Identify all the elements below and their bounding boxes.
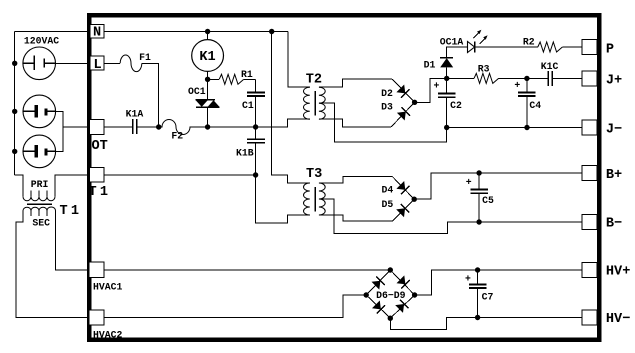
- transformer T1 core: [27, 203, 52, 205]
- svg-text:R1: R1: [241, 69, 253, 80]
- wire HVAC2 to bridge left: [104, 295, 366, 318]
- svg-text:+: +: [434, 81, 440, 92]
- svg-text:B−: B−: [606, 216, 622, 231]
- svg-text:C4: C4: [529, 100, 541, 111]
- svg-text:OC1: OC1: [188, 86, 206, 97]
- outlet receptacle symbol bottom: [23, 135, 56, 168]
- opto-triac OC1: [196, 79, 220, 127]
- svg-text:+: +: [466, 177, 472, 188]
- terminal OT box: [90, 120, 105, 135]
- enclosure outline of power supply box: [89, 15, 599, 340]
- node C4 bottom / J- line: [524, 125, 529, 130]
- LED OC1A: [447, 30, 538, 58]
- relay contact K1C: [527, 71, 582, 86]
- capacitor C1: [247, 92, 265, 96]
- svg-text:C1: C1: [242, 100, 254, 111]
- svg-text:OC1A: OC1A: [440, 37, 464, 48]
- transformer T3 primary winding: [303, 183, 309, 215]
- transformer T3 secondary winding: [319, 183, 325, 215]
- node junction bus / plug top: [12, 61, 17, 66]
- terminal N box: [90, 25, 104, 39]
- svg-text:P: P: [606, 43, 614, 58]
- node OC1 bottom / F2 line: [205, 124, 210, 129]
- terminal B+ box: [582, 166, 597, 181]
- wire T2 secondary center tap return: [319, 103, 447, 142]
- terminal HV+ box: [582, 263, 597, 278]
- svg-text:+: +: [514, 80, 520, 91]
- resistor R3: [447, 73, 527, 83]
- resistor R1: [208, 74, 256, 84]
- svg-text:K1C: K1C: [541, 61, 559, 72]
- svg-text:OT: OT: [92, 139, 108, 154]
- diode D4: [392, 177, 414, 200]
- node N line / K1 coil: [205, 29, 210, 34]
- node C2 bottom / J- line / T2 return: [444, 125, 449, 130]
- wire B- line to terminal: [479, 221, 582, 223]
- transformer T2 primary winding: [303, 87, 309, 119]
- svg-text:T1: T1: [60, 204, 83, 219]
- svg-text:120VAC: 120VAC: [24, 35, 59, 46]
- wire T1 terminal line: [104, 174, 256, 176]
- svg-text:R3: R3: [478, 63, 490, 74]
- wire B+ line to terminal: [479, 172, 582, 174]
- node T1 line / K1B: [253, 172, 258, 177]
- transformer T1 primary winding: [23, 191, 55, 201]
- terminal HV- box: [582, 310, 597, 325]
- wire K1 bottom to node: [207, 71, 209, 79]
- svg-text:HVAC1: HVAC1: [93, 282, 123, 293]
- wire D4 D5 junction to B+ line: [414, 173, 479, 199]
- transformer T3 core: [314, 187, 316, 212]
- terminal HVAC1 box: [89, 262, 104, 278]
- capacitor C2: [438, 78, 455, 127]
- svg-text:D6−D9: D6−D9: [376, 290, 406, 301]
- diode D3: [391, 102, 414, 127]
- wire neutral bus top from bus to N terminal: [15, 31, 87, 33]
- svg-text:D5: D5: [382, 199, 394, 210]
- diode D1: [440, 58, 453, 79]
- transformer T1 secondary winding: [23, 207, 56, 216]
- diode D2: [392, 79, 414, 102]
- svg-text:D2: D2: [381, 88, 393, 99]
- svg-text:R2: R2: [523, 37, 535, 48]
- svg-text:PRI: PRI: [31, 179, 49, 190]
- wire F2 line to C1 node: [208, 126, 256, 128]
- terminal B- box: [582, 215, 597, 230]
- wire C1 bottom to F2 line: [255, 96, 257, 127]
- svg-text:F2: F2: [171, 130, 183, 141]
- terminal J- box: [582, 120, 597, 135]
- wire N line corner to T2 primary top: [288, 32, 310, 88]
- fuse F2: [159, 120, 208, 135]
- terminal L box: [90, 56, 104, 70]
- svg-text:HV−: HV−: [606, 312, 630, 327]
- svg-text:HVAC2: HVAC2: [93, 329, 123, 340]
- fuse F1: [120, 55, 142, 72]
- wire J- line: [447, 127, 582, 129]
- wire HV+ line to terminal: [478, 269, 582, 271]
- node bridge left: [364, 292, 369, 297]
- wire F2 line to T2 primary bottom: [256, 119, 310, 127]
- svg-text:K1A: K1A: [126, 109, 144, 120]
- wire R1 to C1: [255, 79, 257, 92]
- terminal P box: [582, 40, 597, 55]
- terminal T1 box: [90, 168, 105, 183]
- relay contact K1A: [133, 119, 159, 134]
- transformer T2 secondary winding: [319, 87, 325, 119]
- node F1 / K1A / F2: [156, 124, 161, 129]
- node bridge bottom: [388, 316, 393, 321]
- node C5 top / B+ line: [476, 170, 481, 175]
- wire T2 secondary top to D2: [319, 79, 392, 87]
- wire T3 secondary center tap return: [319, 199, 479, 234]
- wire D2 D3 junction to C2 node: [415, 78, 447, 102]
- svg-text:J+: J+: [606, 74, 622, 89]
- svg-text:B+: B+: [606, 168, 622, 183]
- wire OT terminal to K1A: [104, 126, 132, 128]
- wire F1 to junction: [142, 63, 159, 127]
- relay coil K1: [192, 40, 224, 72]
- svg-text:C5: C5: [482, 195, 494, 206]
- svg-text:+: +: [465, 273, 471, 284]
- wire N line to T3 primary top: [272, 32, 310, 184]
- svg-text:D1: D1: [424, 59, 436, 70]
- wire left neutral bus vertical: [14, 32, 16, 175]
- node D2 D3 junction: [412, 100, 417, 105]
- svg-text:N: N: [93, 26, 101, 41]
- svg-text:D3: D3: [381, 102, 393, 113]
- wire T2 secondary bottom to D3: [319, 119, 391, 127]
- diode bridge D6-D9: [366, 270, 414, 318]
- wire N line down to K1: [207, 32, 209, 40]
- wire L terminal to F1: [104, 62, 120, 64]
- wire K1B line down to T3 primary bottom: [256, 175, 310, 223]
- svg-text:F1: F1: [139, 52, 151, 63]
- svg-text:C7: C7: [482, 292, 494, 303]
- terminal J+ box: [582, 71, 597, 86]
- svg-text:T1: T1: [89, 185, 112, 200]
- svg-text:D4: D4: [382, 184, 394, 195]
- wire T3 secondary top to D4: [319, 177, 393, 183]
- capacitor C5: [470, 173, 488, 222]
- node D4 D5 junction: [412, 197, 417, 202]
- transformer T2 core: [314, 91, 316, 116]
- svg-text:L: L: [94, 58, 102, 73]
- capacitor C4: [518, 78, 536, 127]
- svg-text:K1: K1: [199, 50, 215, 65]
- svg-text:K1B: K1B: [236, 147, 254, 158]
- wire T3 secondary bottom to D5: [319, 215, 393, 221]
- capacitor C7: [469, 270, 486, 318]
- svg-text:SEC: SEC: [32, 218, 50, 229]
- wire bridge bottom to HV- line: [390, 318, 477, 330]
- node bridge top: [388, 267, 393, 272]
- diode D5: [392, 199, 414, 221]
- resistor R2: [538, 42, 582, 52]
- node C7 top / HV+ line: [475, 267, 480, 272]
- wire N line inside box: [104, 31, 288, 33]
- wire bus into T1 primary left: [15, 175, 23, 191]
- svg-text:T3: T3: [306, 167, 322, 182]
- wire HV- line to terminal: [478, 317, 582, 319]
- relay contact K1B: [247, 127, 265, 175]
- outlet receptacle symbol middle: [23, 95, 56, 128]
- svg-text:T2: T2: [306, 73, 322, 88]
- wire receptacles to OT terminal: [56, 111, 63, 151]
- node C5 bottom / B- line: [476, 219, 481, 224]
- node D1 / C2 / R3: [444, 76, 449, 81]
- node C7 bottom / HV- line: [475, 315, 480, 320]
- terminal HVAC2 box: [89, 310, 104, 325]
- node R3 / C4 / K1C: [524, 76, 529, 81]
- svg-text:J−: J−: [606, 122, 622, 137]
- node bridge right: [412, 292, 417, 297]
- node junction bus / receptacle middle: [12, 109, 17, 114]
- wire T1 secondary left to HVAC2 terminal: [16, 211, 89, 318]
- wire plug top to L terminal: [56, 62, 91, 64]
- node C1 / K1B / F2 line: [253, 124, 258, 129]
- svg-text:C2: C2: [450, 100, 462, 111]
- wire bridge right to HV+ line: [415, 270, 478, 295]
- node junction bus / receptacle bottom: [12, 149, 17, 154]
- wire T1 primary right to T1 terminal: [55, 175, 89, 197]
- node K1 / R1 / OC1: [205, 77, 210, 82]
- wire HVAC1 to bridge top: [104, 269, 390, 271]
- node N line / T3 primary feed: [269, 29, 274, 34]
- outlet plug symbol top (120VAC source): [23, 47, 56, 80]
- wire receptacle bus to OT: [63, 126, 89, 128]
- svg-text:HV+: HV+: [606, 265, 630, 280]
- wire T1 secondary right to HVAC1 terminal: [56, 211, 90, 270]
